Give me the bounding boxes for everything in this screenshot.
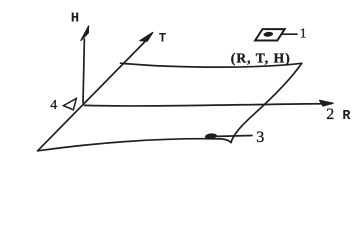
svg-text:R: R — [342, 109, 351, 124]
node R-axis arrowhead — [320, 100, 334, 106]
svg-text:T: T — [159, 32, 167, 46]
svg-text:(R, T, H): (R, T, H) — [231, 50, 291, 65]
svg-text:H: H — [71, 11, 79, 27]
wire plane top edge — [121, 63, 302, 67]
wire plane bottom edge — [38, 139, 231, 151]
node point 3 dot — [205, 133, 217, 140]
node H-axis arrowhead — [81, 26, 89, 40]
wire H-axis shaft — [83, 39, 84, 103]
wire leader to label 1 — [283, 33, 297, 35]
svg-text:1: 1 — [300, 26, 307, 41]
small parallelogram element 1 — [255, 29, 285, 40]
svg-text:2: 2 — [326, 106, 334, 123]
wire R-axis shaft — [85, 104, 332, 106]
wire T-axis long diagonal (plane left edge) — [38, 38, 149, 151]
svg-text:4: 4 — [50, 98, 57, 113]
wire plane right edge — [231, 63, 302, 142]
node marker 4 triangle — [63, 99, 76, 110]
wire leader to label 3 — [217, 135, 252, 138]
node dot inside element 1 — [263, 31, 273, 37]
node T-axis arrowhead — [140, 32, 153, 41]
svg-text:3: 3 — [256, 129, 264, 146]
